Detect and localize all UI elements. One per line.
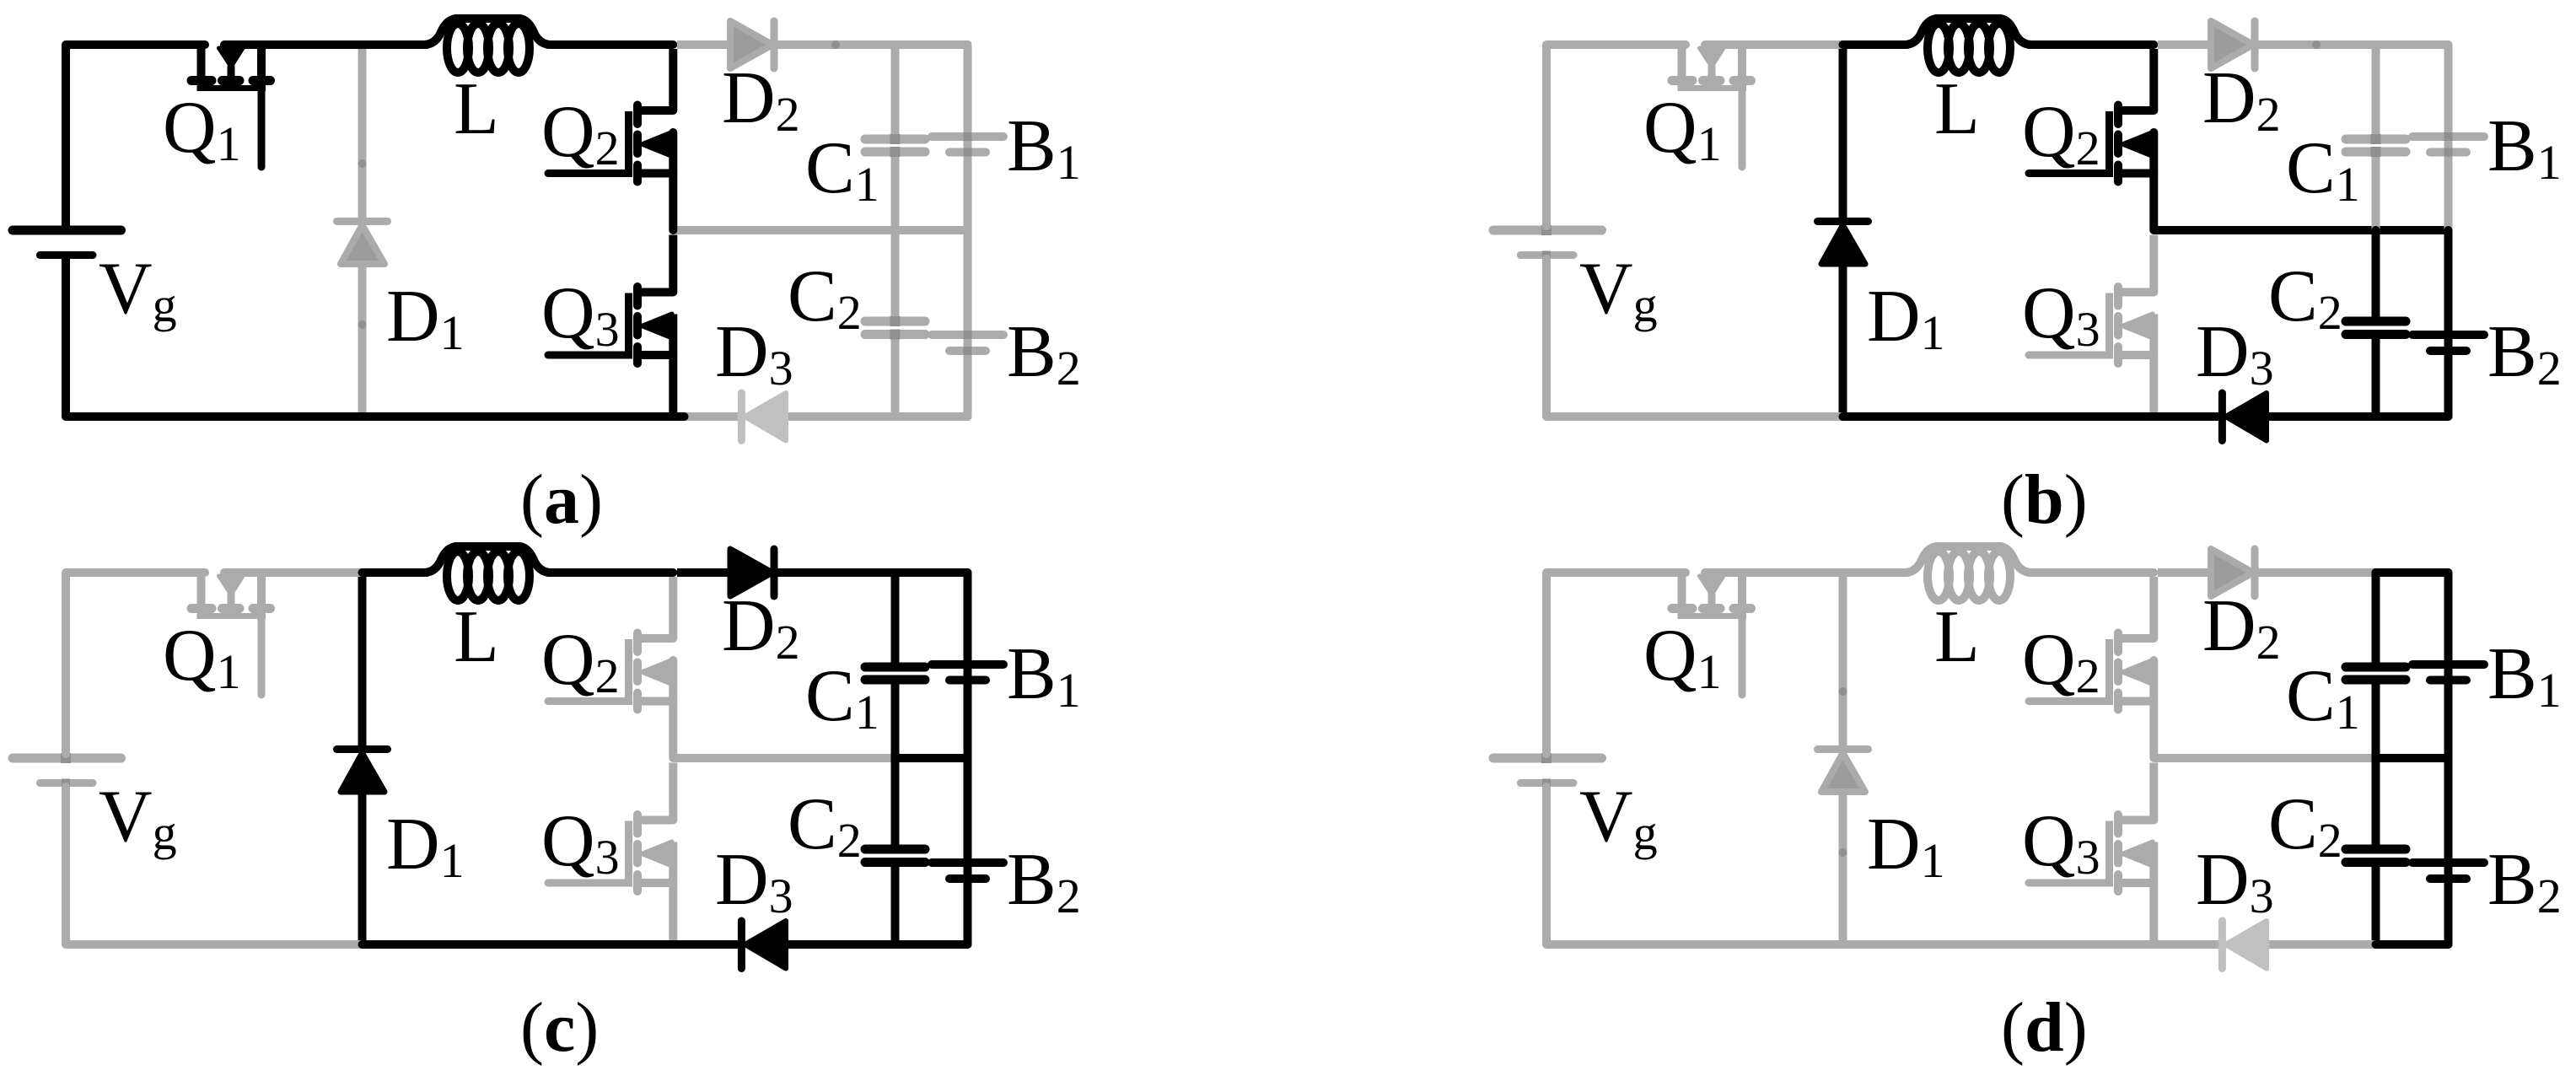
wire (c): D2 anode — [677, 568, 730, 577]
diode D2 (b) — [2211, 21, 2255, 68]
transistor Q2 (c) — [548, 577, 673, 758]
diode D3 (a) — [741, 393, 786, 441]
wire (d): top rail to battery corner — [2376, 568, 2449, 577]
battery B2 (d) — [2412, 758, 2484, 944]
inductor L (b) — [1906, 19, 2030, 73]
junction dot on top rail (a) — [831, 40, 840, 49]
wire (b): left rail + top rail to Q1 — [1546, 45, 1686, 226]
wire (a): D3 to cap column bottom — [786, 412, 895, 421]
wire (a): D2 anode — [677, 40, 730, 49]
diode D1 (d) — [1818, 577, 1869, 940]
inductor L (d) — [1906, 546, 2030, 600]
capacitor C1 (d) — [2346, 573, 2406, 758]
wire (c): left rail + top rail to Q1 — [66, 573, 205, 754]
capacitor C2 (a) — [865, 230, 925, 417]
voltage source Vg (a) — [13, 230, 121, 256]
battery B1 (b) — [2412, 45, 2484, 230]
inductor L (c) — [425, 546, 550, 600]
wire (c): mid rail Q2/Q3 node to cap column — [675, 754, 895, 762]
capacitor C1 (a) — [865, 45, 925, 230]
wire (a): mid rail cap column to battery column — [895, 226, 968, 234]
diode D2 (d) — [2211, 549, 2255, 596]
wire (a): left rail + top rail to Q1 — [66, 45, 205, 226]
wire (b): D3 to cap column bottom — [2267, 412, 2376, 421]
wire (c): Vg minus to bottom rail to D1 — [66, 787, 363, 944]
transistor Q2 (d) — [2029, 577, 2154, 758]
wire (a): top rail Q1 to D1 node — [224, 40, 363, 49]
junction dot mid rail (a) — [964, 226, 972, 234]
wire (b): D2 anode — [2158, 40, 2211, 49]
transistor Q1 (a) — [191, 45, 271, 167]
wire (c): bottom rail to battery corner — [895, 940, 968, 949]
wire (d): D3 to cap column bottom — [2267, 940, 2376, 949]
capacitor C2 (c) — [865, 758, 925, 944]
wire (c): mid rail cap column to battery column — [895, 754, 968, 762]
svg-text:L: L — [454, 596, 499, 678]
wire (a): bottom rail D1 to Q3 — [363, 412, 674, 421]
transistor Q2 (a) — [548, 49, 673, 230]
wire (b): top rail inductor to Q2 — [2029, 40, 2154, 49]
capacitor C2 (d) — [2346, 758, 2406, 944]
wire (d): mid rail Q2/Q3 node to cap column — [2155, 754, 2376, 762]
svg-text:(c): (c) — [520, 988, 599, 1067]
wire (c): top rail Q1 to D1 node — [224, 568, 363, 577]
junction dot on top rail (b) — [2312, 40, 2321, 49]
wire (a): top rail inductor to Q2 — [548, 40, 673, 49]
voltage source Vg (d) — [1493, 753, 1602, 788]
wire (c): bottom rail D1 to Q3 — [363, 940, 674, 949]
diode D1 (a) — [337, 49, 388, 412]
voltage source Vg (c) — [13, 753, 121, 788]
wire (a): mid rail Q2/Q3 node to cap column — [675, 226, 895, 234]
wire (a): D2 cathode to cap column — [777, 40, 895, 49]
junction dots on D1 line (a) — [358, 159, 367, 329]
wire (d): Vg minus to bottom rail to D1 — [1546, 787, 1843, 944]
svg-text:L: L — [454, 68, 499, 150]
junction dots on D1 line (d) — [1839, 687, 1847, 857]
transistor Q1 (b) — [1672, 45, 1751, 167]
wire (d): top rail D1 to inductor — [1843, 568, 1908, 577]
inductor L (a) — [425, 19, 550, 73]
wire (a): top rail to battery corner — [895, 40, 968, 49]
battery B1 (d) — [2412, 573, 2484, 758]
transistor Q2 (b) — [2029, 49, 2154, 230]
svg-text:(b): (b) — [2001, 460, 2088, 539]
wire (d): bottom rail to battery corner — [2376, 940, 2449, 949]
wire (b): Vg minus to bottom rail to D1 — [1546, 259, 1843, 417]
transistor Q1 (d) — [1672, 573, 1751, 695]
wire (d): D2 anode — [2158, 568, 2211, 577]
wire (d): bottom rail D1 to Q3 — [1843, 940, 2154, 949]
battery B2 (b) — [2412, 230, 2484, 417]
wire (b): top rail Q1 to D1 node — [1705, 40, 1843, 49]
wire (c): D3 to cap column bottom — [786, 940, 895, 949]
svg-text:L: L — [1934, 68, 1980, 150]
transistor Q3 (b) — [2029, 235, 2154, 417]
diode D3 (b) — [2222, 393, 2267, 441]
diode D1 (b) — [1818, 49, 1869, 412]
wire (d): top rail Q1 to D1 node — [1705, 568, 1843, 577]
wire (a): top rail D1 to inductor — [363, 40, 428, 49]
diode D3 (d) — [2222, 921, 2267, 969]
wire (b): bottom rail to battery corner — [2376, 412, 2449, 421]
wire (c): D2 cathode to cap column — [777, 568, 895, 577]
transistor Q3 (c) — [548, 763, 673, 945]
wire (b): top rail D1 to inductor — [1843, 40, 1908, 49]
bottom rail Q3 to D3 (b) — [2154, 412, 2218, 421]
wire (a): Vg minus to bottom rail to D1 — [66, 259, 363, 417]
wire (d): top rail inductor to Q2 — [2029, 568, 2154, 577]
wire (b): D2 cathode to cap column — [2258, 40, 2376, 49]
diode D2 (c) — [730, 549, 774, 596]
battery B1 (c) — [932, 573, 1003, 758]
voltage source Vg (b) — [1493, 225, 1602, 260]
diode D1 (c) — [337, 577, 388, 940]
svg-text:(d): (d) — [2001, 988, 2088, 1067]
battery B2 (a) — [932, 230, 1003, 417]
wire (c): top rail to battery corner — [895, 568, 968, 577]
wire (b): top rail to battery corner — [2376, 40, 2449, 49]
wire (c): top rail D1 to inductor — [363, 568, 428, 577]
bottom rail Q3 to D3 (d) — [2154, 940, 2218, 949]
wire (b): bottom rail D1 to Q3 — [1843, 412, 2154, 421]
capacitor C1 (c) — [865, 573, 925, 758]
wire (d): left rail + top rail to Q1 — [1546, 573, 1686, 754]
wire (d): mid rail cap column to battery column — [2376, 754, 2449, 762]
svg-text:L: L — [1934, 596, 1980, 678]
battery B2 (c) — [932, 758, 1003, 944]
transistor Q3 (d) — [2029, 763, 2154, 945]
transistor Q1 (c) — [191, 573, 271, 695]
bottom rail Q3-to-D3 stub (a) — [673, 412, 742, 421]
bottom rail Q3 to D3 (c) — [673, 940, 738, 949]
transistor Q3 (a) — [548, 235, 673, 417]
diode D3 (c) — [741, 921, 786, 969]
battery B1 (a) — [932, 45, 1003, 230]
wire (b): mid rail cap column to battery column — [2376, 226, 2449, 234]
svg-text:(a): (a) — [520, 460, 603, 539]
wire (b): mid rail Q2/Q3 node to cap column — [2155, 226, 2376, 234]
wire (a): bottom rail to battery corner — [895, 412, 968, 421]
capacitor C1 (b) — [2346, 45, 2406, 230]
diode D2 (a) — [730, 21, 774, 68]
wire (d): D2 cathode to cap column — [2258, 568, 2376, 577]
capacitor C2 (b) — [2346, 230, 2406, 417]
wire (c): top rail inductor to Q2 — [548, 568, 673, 577]
